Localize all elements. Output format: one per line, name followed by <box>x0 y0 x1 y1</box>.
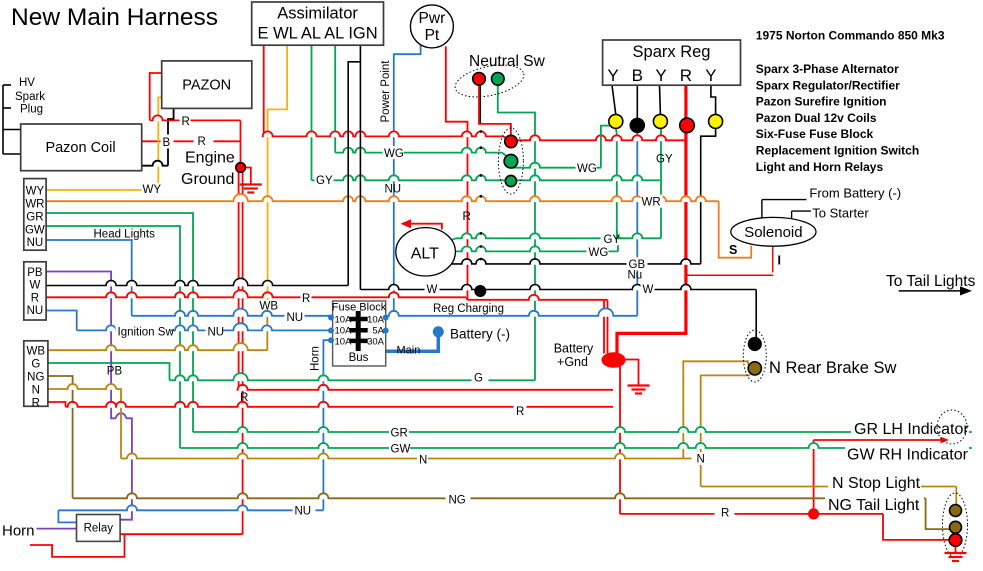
svg-text:N: N <box>697 453 705 465</box>
svg-text:Assimilator: Assimilator <box>277 5 358 23</box>
svg-text:10A: 10A <box>335 326 353 337</box>
svg-text:Main: Main <box>397 344 421 356</box>
svg-text:Y: Y <box>607 66 618 85</box>
svg-text:To Tail Lights: To Tail Lights <box>886 273 976 290</box>
svg-text:10A: 10A <box>367 314 385 325</box>
svg-text:W: W <box>427 284 438 296</box>
svg-text:Sparx Reg: Sparx Reg <box>633 43 711 61</box>
svg-text:G: G <box>474 372 483 384</box>
svg-text:Light and Horn Relays: Light and Horn Relays <box>756 160 884 174</box>
svg-text:10A: 10A <box>335 337 353 348</box>
svg-text:Ignition Sw: Ignition Sw <box>118 327 175 339</box>
svg-text:R: R <box>32 397 40 409</box>
svg-text:R: R <box>516 406 524 418</box>
svg-text:NU: NU <box>287 312 304 324</box>
svg-text:Sparx 3-Phase Alternator: Sparx 3-Phase Alternator <box>756 62 899 76</box>
svg-text:WG: WG <box>589 247 609 259</box>
svg-text:Nu: Nu <box>628 269 643 281</box>
svg-text:NU: NU <box>295 506 312 518</box>
svg-text:NG Tail Light: NG Tail Light <box>828 497 920 514</box>
svg-text:B: B <box>163 137 171 149</box>
svg-text:R: R <box>463 211 471 223</box>
svg-text:N Stop Light: N Stop Light <box>832 475 921 492</box>
svg-text:WG: WG <box>384 148 404 160</box>
svg-text:Spark: Spark <box>15 91 45 103</box>
svg-text:NU: NU <box>27 237 44 249</box>
svg-text:Pazon Dual 12v Coils: Pazon Dual 12v Coils <box>756 111 877 125</box>
svg-text:Replacement Ignition Switch: Replacement Ignition Switch <box>756 144 919 158</box>
svg-text:W: W <box>643 284 654 296</box>
svg-text:I: I <box>778 254 781 268</box>
svg-text:To Starter: To Starter <box>812 206 869 221</box>
svg-text:Pazon Coil: Pazon Coil <box>45 140 115 156</box>
svg-text:GW: GW <box>391 444 411 456</box>
svg-text:E WL AL AL IGN: E WL AL AL IGN <box>258 25 378 43</box>
svg-text:+Gnd: +Gnd <box>557 355 588 369</box>
svg-text:W: W <box>29 280 40 292</box>
svg-text:Sparx Regulator/Rectifier: Sparx Regulator/Rectifier <box>756 78 900 92</box>
svg-text:Battery: Battery <box>554 342 594 356</box>
svg-text:Power Point: Power Point <box>380 60 392 123</box>
svg-text:WG: WG <box>577 163 597 175</box>
svg-text:GR: GR <box>26 211 43 223</box>
svg-text:NG: NG <box>27 371 44 383</box>
svg-text:Reg Charging: Reg Charging <box>433 303 504 315</box>
svg-text:R: R <box>721 508 729 520</box>
svg-text:WY: WY <box>26 186 45 198</box>
svg-text:R: R <box>240 392 248 404</box>
svg-text:PB: PB <box>107 366 123 378</box>
svg-text:R: R <box>182 116 190 128</box>
svg-text:GW: GW <box>25 224 45 236</box>
svg-text:NU: NU <box>208 327 225 339</box>
svg-text:10A: 10A <box>335 314 353 325</box>
svg-text:NU: NU <box>27 305 44 317</box>
svg-text:Battery (-): Battery (-) <box>450 327 510 342</box>
svg-text:HV: HV <box>19 77 35 89</box>
svg-text:Y: Y <box>655 66 666 85</box>
svg-text:B: B <box>632 66 643 85</box>
svg-text:30A: 30A <box>367 337 385 348</box>
svg-text:New Main Harness: New Main Harness <box>11 4 218 31</box>
svg-text:Ground: Ground <box>181 171 234 188</box>
svg-text:NG: NG <box>449 494 466 506</box>
svg-text:NU: NU <box>385 184 402 196</box>
svg-text:WB: WB <box>27 345 46 357</box>
svg-text:Y: Y <box>705 66 716 85</box>
svg-text:From Battery (-): From Battery (-) <box>809 186 901 201</box>
svg-text:Solenoid: Solenoid <box>744 224 802 241</box>
svg-text:Engine: Engine <box>185 150 235 167</box>
svg-text:G: G <box>31 358 40 370</box>
svg-text:N: N <box>32 384 40 396</box>
svg-text:N Rear Brake Sw: N Rear Brake Sw <box>769 359 897 377</box>
svg-text:WB: WB <box>260 301 279 313</box>
svg-text:WR: WR <box>642 197 661 209</box>
svg-text:Pwr: Pwr <box>419 10 446 27</box>
svg-text:Six-Fuse Fuse Block: Six-Fuse Fuse Block <box>756 127 874 141</box>
svg-text:PAZON: PAZON <box>182 78 231 94</box>
svg-text:GY: GY <box>316 175 333 187</box>
svg-text:GR: GR <box>391 428 408 440</box>
svg-text:Head Lights: Head Lights <box>94 229 156 241</box>
svg-text:R: R <box>198 136 206 148</box>
svg-text:Pazon Surefire Ignition: Pazon Surefire Ignition <box>756 95 887 109</box>
svg-text:GR LH Indicator: GR LH Indicator <box>854 421 969 438</box>
svg-text:Horn: Horn <box>310 346 322 371</box>
svg-text:R: R <box>31 292 39 304</box>
svg-text:Neutral Sw: Neutral Sw <box>469 53 546 70</box>
svg-text:R: R <box>302 293 310 305</box>
svg-text:N: N <box>419 454 427 466</box>
svg-text:R: R <box>680 66 692 85</box>
svg-text:Bus: Bus <box>349 352 369 364</box>
svg-text:S: S <box>729 243 737 257</box>
svg-text:WR: WR <box>25 199 44 211</box>
svg-text:WY: WY <box>143 184 162 196</box>
svg-text:Horn: Horn <box>2 523 35 540</box>
svg-text:Pt: Pt <box>425 27 440 44</box>
svg-text:PB: PB <box>27 267 43 279</box>
svg-text:Relay: Relay <box>84 523 114 535</box>
svg-text:1975 Norton Commando 850 Mk3: 1975 Norton Commando 850 Mk3 <box>756 29 945 43</box>
svg-text:Plug: Plug <box>20 104 43 116</box>
svg-text:GW RH Indicator: GW RH Indicator <box>847 447 969 464</box>
svg-text:GY: GY <box>604 234 621 246</box>
svg-text:ALT: ALT <box>411 246 439 263</box>
svg-text:GY: GY <box>656 154 673 166</box>
